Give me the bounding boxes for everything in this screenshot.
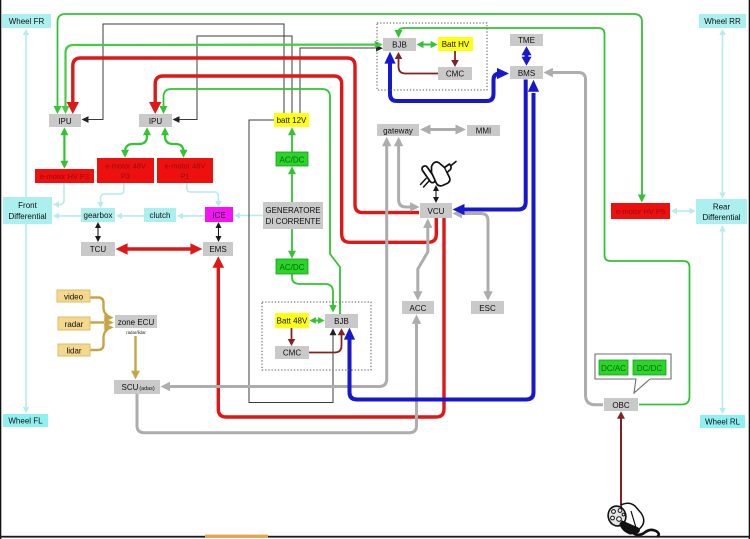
block GENERATORE DI CORRENTE [263, 202, 323, 229]
wire batt 12V - BJB HV (12V supply) [300, 45, 383, 113]
wire Wheel RR - Rear Differential (mech) [719, 29, 725, 199]
wire gearbox - TCU (black) [95, 222, 101, 242]
wire IPU FR1 - VCU (red) [67, 58, 419, 213]
block Batt 48V [275, 313, 309, 328]
wire Batt 48V - CMC 48V [288, 328, 296, 346]
wire AC/DC upper - batt 12V (green) [288, 127, 296, 152]
block ICE [205, 207, 233, 222]
wire batt 12V - IPU FR2 (12V supply) [173, 36, 293, 123]
wire clutch - gearbox (mech) [116, 213, 144, 219]
block Wheel RR [699, 14, 746, 28]
block DC/AC [599, 360, 628, 375]
block IPU front 2 [139, 114, 172, 127]
block video [57, 290, 90, 302]
wire TME - BMS (blue) [522, 46, 532, 65]
callout bubble DC converters [595, 354, 671, 393]
svg-text:IPU: IPU [149, 117, 163, 126]
dashed box 48V battery pack [262, 302, 371, 370]
block Wheel RL [700, 415, 745, 428]
block batt 12V [274, 113, 309, 127]
wire Batt HV - BJB HV (green) [417, 41, 438, 48]
svg-text:ESC: ESC [479, 304, 496, 313]
svg-text:batt 12V: batt 12V [277, 116, 307, 125]
svg-text:BJB: BJB [392, 41, 407, 50]
block CMC 48V [275, 346, 309, 359]
svg-text:gearbox: gearbox [84, 211, 113, 220]
block Front Differential [3, 197, 52, 224]
block gearbox [81, 208, 115, 222]
pedal icon (accelerator) [421, 162, 457, 188]
svg-text:e-motor 48V: e-motor 48V [165, 162, 206, 171]
ICONS [421, 162, 659, 538]
wire ICE - EMS (black) [216, 222, 222, 242]
BOXES [2, 14, 747, 428]
svg-text:e-motor 48V: e-motor 48V [105, 162, 146, 171]
svg-text:radar/lidar: radar/lidar [126, 330, 146, 335]
block BMS [510, 66, 543, 79]
block DC/DC [633, 360, 666, 375]
block AC/DC upper [276, 152, 308, 166]
wire BMS - OBC (gray) [543, 68, 603, 405]
svg-text:Wheel FR: Wheel FR [9, 17, 45, 26]
wire e-motor 48V P1 - ICE (mech) [187, 183, 222, 207]
svg-text:TCU: TCU [90, 245, 107, 254]
wire gateway - VCU (gray) [394, 137, 420, 212]
dashed box HV battery pack [377, 23, 487, 90]
svg-text:MMI: MMI [476, 127, 492, 136]
svg-text:CMC: CMC [283, 349, 301, 358]
wire zone ECU - SCU (sensor) [131, 336, 140, 379]
wire CMC HV - BJB HV [395, 52, 438, 74]
block MMI [467, 125, 500, 136]
wire video - zone ECU (sensor) [90, 298, 114, 322]
svg-text:SCU: SCU [122, 383, 139, 392]
wire ICE - clutch (mech) [177, 213, 205, 219]
wire gearbox - Front Differential (mech) [53, 213, 81, 219]
svg-text:e-motor HV P3: e-motor HV P3 [40, 172, 89, 181]
wire GENERATORE - ICE (mech) [234, 212, 263, 218]
svg-text:e-motor HV P5: e-motor HV P5 [616, 207, 665, 216]
block TME [510, 34, 543, 46]
wire lidar - zone ECU (sensor) [90, 323, 114, 350]
block SCU adas [114, 380, 160, 394]
wire SCU - gateway (gray) [161, 137, 392, 391]
block OBC [604, 398, 638, 411]
block Wheel FR [2, 14, 51, 28]
svg-text:Batt 48V: Batt 48V [277, 317, 308, 326]
svg-text:VCU: VCU [428, 207, 445, 216]
svg-text:IPU: IPU [58, 117, 72, 126]
block radar [58, 317, 90, 330]
block clutch [144, 208, 176, 222]
svg-text:GENERATORE: GENERATORE [265, 206, 320, 215]
wire BMS - VCU (blue) [453, 80, 526, 216]
svg-text:radar: radar [65, 320, 84, 329]
wire VCU - ACC (gray) [413, 218, 432, 300]
wire CMC 48V - BJB 48V [309, 328, 345, 352]
wire pedal - VCU (black) [433, 185, 439, 203]
block zone ECU [115, 315, 157, 335]
wire GENERATORE - AC/DC lower (green) [288, 229, 296, 259]
svg-text:Differential: Differential [702, 213, 740, 222]
wire gateway - MMI (gray CAN) [420, 125, 466, 135]
svg-text:ACC: ACC [410, 304, 427, 313]
wire e-motor HV P5 - Rear Differential (mech) [671, 208, 696, 214]
wire IPU FR2 - e-motor 48V P1 (green) [161, 127, 188, 157]
wire radar - zone ECU (sensor) [90, 318, 114, 327]
wire SCU - ACC (gray) [137, 314, 421, 432]
wire e-motor 48V P3 - gearbox (mech) [97, 183, 124, 208]
wire BJB HV - BMS (blue) [384, 52, 509, 101]
wire batt 12V - BJB 48V (12V supply) [249, 120, 336, 403]
svg-text:video: video [64, 293, 84, 302]
block BJB 48V [325, 314, 358, 328]
block e-motor 48V P3 [97, 158, 154, 183]
svg-text:P3: P3 [121, 172, 130, 181]
svg-text:lidar: lidar [66, 347, 81, 356]
block e-motor HV P5 [611, 203, 670, 219]
svg-text:CMC: CMC [446, 70, 464, 79]
wire charge plug - OBC [617, 411, 625, 505]
svg-text:AC/DC: AC/DC [280, 263, 305, 272]
svg-text:BJB: BJB [334, 317, 349, 326]
wire batt 12V - IPU FR1 (12V supply) [82, 24, 285, 123]
svg-text:Wheel RL: Wheel RL [705, 418, 741, 427]
wire VCU - EMS (red) [213, 218, 445, 417]
svg-text:TME: TME [518, 36, 535, 45]
block IPU front 1 [49, 114, 81, 127]
block e-motor 48V P1 [157, 158, 213, 183]
block VCU [420, 203, 452, 218]
block BJB HV [383, 38, 416, 51]
svg-text:P1: P1 [180, 172, 189, 181]
svg-text:zone ECU: zone ECU [118, 318, 155, 327]
wire IPU FR1 - BJB HV (green) [62, 41, 383, 114]
svg-text:Wheel FL: Wheel FL [8, 417, 43, 426]
block CMC HV [438, 67, 472, 80]
wire Rear Differential - Wheel RL (mech) [719, 226, 725, 415]
block Wheel FL [3, 414, 48, 427]
wire OBC - BJB HV (green) [395, 28, 690, 405]
wire e-motor HV P3 - Front Differential (mech) [53, 183, 64, 208]
svg-text:DC/AC: DC/AC [601, 364, 626, 373]
svg-text:Wheel RR: Wheel RR [704, 17, 741, 26]
wire Wheel FR - Front Differential (mech) [23, 29, 29, 197]
wire Batt 48V - BJB 48V (green) [309, 317, 324, 324]
svg-text:EMS: EMS [209, 245, 226, 254]
block gateway [377, 124, 419, 136]
block ESC [471, 301, 504, 314]
svg-text:BMS: BMS [518, 69, 535, 78]
svg-text:DC/DC: DC/DC [637, 364, 663, 373]
wire IPU FR2 - VCU (red) [149, 76, 436, 242]
block AC/DC lower [276, 259, 308, 274]
svg-text:Front: Front [18, 201, 37, 210]
wire IPU FR2 - e-motor 48V P3 (green) [121, 127, 151, 157]
svg-text:ICE: ICE [212, 211, 225, 220]
block EMS [203, 242, 233, 256]
block TCU [81, 242, 115, 256]
svg-text:Batt HV: Batt HV [442, 40, 470, 49]
block e-motor HV P3 [35, 169, 94, 183]
block Batt HV [438, 37, 473, 51]
wire BJB 48V - BMS (blue) [344, 80, 539, 400]
svg-text:Differential: Differential [8, 212, 46, 221]
svg-text:(adas): (adas) [139, 386, 154, 392]
wire AC/DC lower - BJB 48V (green) [292, 274, 337, 313]
block Rear Differential [696, 199, 747, 224]
wire GENERATORE - AC/DC upper (green) [288, 166, 296, 202]
svg-text:OBC: OBC [612, 401, 630, 410]
wire VCU - ESC (gray) [452, 209, 492, 301]
block ACC [402, 301, 434, 314]
svg-text:Rear: Rear [713, 203, 731, 212]
wire IPU FR1 - e-motor HV P5 (green HV) [54, 14, 646, 203]
svg-text:gateway: gateway [383, 127, 413, 136]
charge plug icon [606, 503, 659, 537]
wire IPU FR2 - BJB 48V (green) [160, 89, 341, 314]
block lidar [58, 344, 90, 356]
svg-text:DI CORRENTE: DI CORRENTE [265, 217, 320, 226]
wire TCU - EMS (red) [116, 243, 203, 255]
wire IPU FR1 - e-motor HV P3 (green) [60, 127, 68, 168]
wire Batt HV - CMC HV [451, 51, 459, 67]
wire Front Differential - Wheel FL (mech) [23, 224, 29, 413]
svg-text:clutch: clutch [150, 211, 171, 220]
svg-text:AC/DC: AC/DC [280, 156, 305, 165]
